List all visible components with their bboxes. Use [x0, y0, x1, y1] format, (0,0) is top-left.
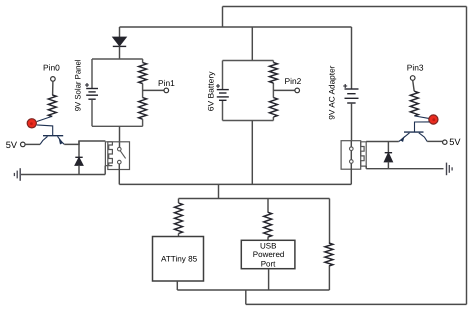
relay K1 switch lever [120, 151, 126, 159]
wire rail C [177, 289, 329, 291]
wire AC adapter top drop [351, 27, 353, 89]
wire solar box bottom drop [119, 126, 121, 147]
diode flyback right [385, 142, 393, 169]
wire relay K2 coil bottom to ground [366, 166, 443, 169]
wire rail A [119, 183, 351, 185]
relay K2 upper contact [350, 147, 354, 151]
wire diode D1 cathode lead [119, 46, 121, 59]
node ATTiny 85 box [153, 237, 204, 282]
relay K1 coil [105, 142, 112, 166]
terminal Pin0 [51, 77, 56, 82]
wire emitter to relay coil [64, 141, 105, 144]
node solar panel box [92, 59, 143, 126]
wire right edge vertical [466, 7, 468, 305]
wire upper bus y27 [120, 26, 352, 28]
resistor ATTiny feed [175, 203, 183, 234]
svg-text:Port: Port [261, 259, 276, 268]
wire rail B left hook [178, 199, 180, 204]
wire AC adapter to relay [351, 103, 353, 141]
wire emitter to coil right [366, 141, 399, 143]
node USB Powered Port box [241, 240, 295, 268]
resistor USB feed [264, 212, 272, 237]
svg-text:9V AC Adapter: 9V AC Adapter [327, 65, 336, 119]
wire Pin2 lead [273, 89, 295, 91]
transistor Q1 [40, 136, 64, 145]
wire bottom loop horizontal [246, 303, 467, 305]
battery 9V solar panel [85, 83, 98, 99]
terminal Pin1 [164, 88, 169, 93]
wire resistor to USB box [267, 237, 269, 240]
wire top loop horizontal [223, 6, 467, 8]
wire A-B connector [218, 184, 220, 198]
resistor solar lower [139, 98, 147, 120]
wire resistor to LED right [415, 116, 429, 118]
svg-text:5V: 5V [449, 137, 461, 147]
relay K2 switch box [341, 141, 361, 170]
wire LED to base right [415, 122, 430, 132]
battery 9V AC adapter [343, 84, 358, 103]
wire 5V to collector [25, 143, 40, 145]
wire diode D1 anode lead [119, 27, 121, 38]
label USB Powered Port [253, 241, 285, 268]
svg-text:6V Battery: 6V Battery [206, 72, 215, 112]
svg-text:ATTiny 85: ATTiny 85 [161, 255, 198, 264]
wire resistor to ATTiny box [178, 234, 180, 237]
wire ground rail left [21, 166, 105, 175]
resistor Pin3 base [410, 91, 418, 116]
svg-text:Powered: Powered [253, 250, 285, 259]
wire Pin0 to resistor [52, 81, 54, 95]
transistor Q2 [399, 132, 428, 141]
LED left [27, 119, 36, 128]
terminal Pin2 [295, 88, 300, 93]
svg-text:Pin1: Pin1 [158, 78, 175, 88]
wire resistor to LED [37, 117, 52, 122]
LED right [429, 115, 438, 124]
svg-text:9V Solar Panel: 9V Solar Panel [73, 59, 82, 111]
relay K2 lower contact [350, 160, 354, 164]
terminal 5V right [443, 140, 447, 144]
wire rail B [179, 198, 330, 200]
ground left [14, 168, 20, 181]
wire Pin3 to resistor [413, 80, 415, 91]
wire bottom loop riser [245, 290, 247, 304]
terminal Pin3 [410, 76, 415, 81]
wire ATTiny bottom lead [176, 281, 178, 290]
diode flyback left [75, 141, 82, 175]
wire right resistor bottom [328, 266, 330, 290]
resistor 6V upper [269, 63, 277, 84]
wire rail B to right resistor [329, 199, 331, 244]
battery 6V [216, 84, 229, 100]
wire relay K1 lower contact drop [118, 164, 120, 184]
wire relay K2 through link [350, 141, 352, 185]
wire 6V bottom drop [251, 121, 253, 185]
relay K1 switch box [108, 142, 130, 170]
relay K1 switch lower contact [118, 160, 122, 164]
relay K1 switch common contact [118, 147, 122, 151]
wire LED to base [37, 125, 53, 135]
wire 6V battery top drop [251, 27, 253, 61]
relay K2 coil [361, 142, 367, 166]
diode D1 [113, 37, 126, 46]
svg-text:Pin3: Pin3 [407, 62, 424, 72]
terminal 5V left [21, 142, 26, 147]
wire USB bottom lead [268, 269, 270, 290]
node 6V battery box [223, 61, 274, 121]
wire rail B to USB resistor [267, 199, 269, 213]
wire Pin1 lead [143, 89, 165, 91]
wire top-left drop [222, 7, 224, 28]
ground right [447, 163, 453, 176]
svg-text:Pin0: Pin0 [43, 63, 60, 73]
svg-text:Pin2: Pin2 [285, 76, 302, 86]
svg-text:5V: 5V [6, 140, 18, 150]
resistor right pull [325, 243, 333, 266]
resistor Pin0 base [48, 95, 56, 117]
resistor solar upper [139, 63, 147, 84]
resistor 6V lower [269, 98, 277, 117]
wire collector to 5V right [427, 140, 443, 142]
